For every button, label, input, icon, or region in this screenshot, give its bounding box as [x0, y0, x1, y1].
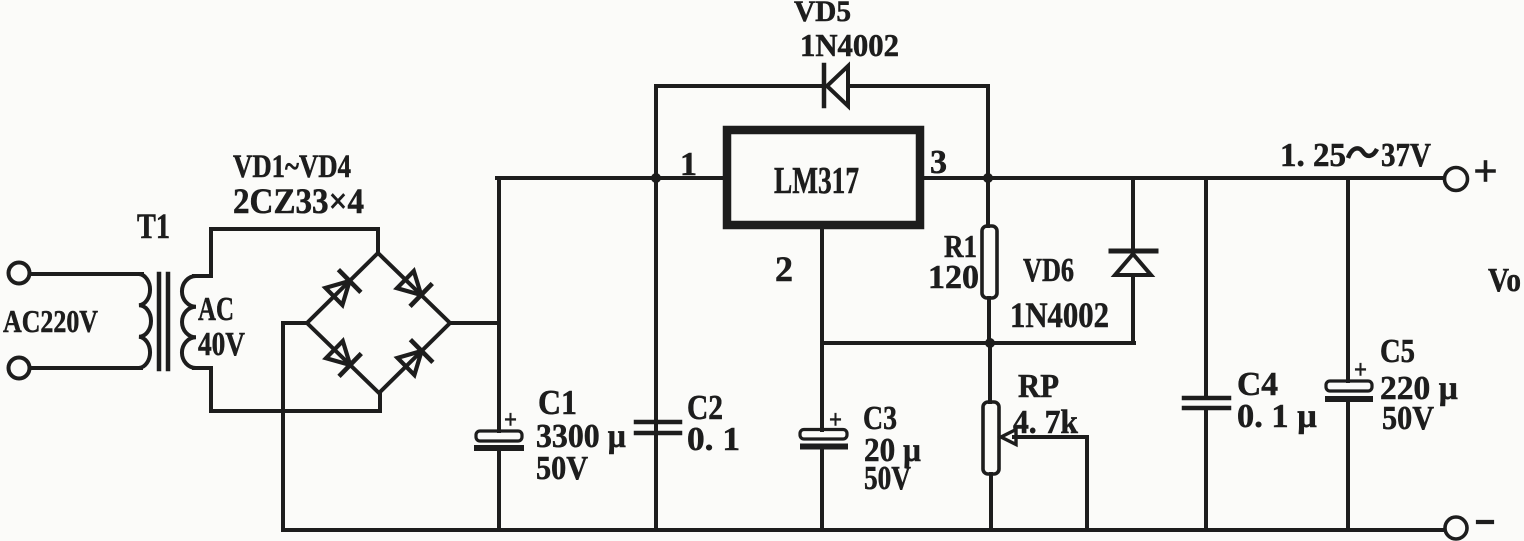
bridge diodes — [326, 270, 433, 377]
capacitor C1 plates — [476, 431, 522, 441]
svg-text:1N4002: 1N4002 — [800, 27, 899, 63]
svg-text:Vo: Vo — [1488, 262, 1521, 299]
wire AC top — [30, 272, 142, 276]
svg-text:2CZ33×4: 2CZ33×4 — [233, 181, 364, 221]
svg-text:AC220V: AC220V — [3, 303, 98, 339]
svg-text:AC: AC — [198, 291, 234, 328]
wire bridge plus output — [450, 321, 497, 325]
terminal output minus — [1445, 517, 1467, 539]
wire input rail — [497, 176, 727, 180]
svg-text:120: 120 — [928, 259, 979, 296]
diode VD3 (bottom-left edge) — [326, 341, 350, 365]
wire VD5 bypass top — [656, 84, 820, 88]
capacitor C5 branch — [1346, 178, 1350, 381]
wire bottom rail — [283, 528, 1444, 532]
svg-text:50V: 50V — [864, 460, 911, 497]
svg-text:VD1~VD4: VD1~VD4 — [233, 149, 351, 185]
wire VD5 right down — [986, 86, 990, 178]
RP wiper arrow — [1001, 430, 1016, 445]
svg-text:VD5: VD5 — [794, 0, 851, 28]
transformer T1 secondary winding — [182, 276, 196, 368]
diode VD5 — [822, 65, 827, 106]
junction dots — [651, 173, 661, 183]
bridge rectifier VD1~VD4 diamond — [307, 253, 450, 393]
wire AC bottom — [30, 366, 141, 370]
wire secondary bottom to bridge — [196, 368, 380, 411]
potentiometer RP — [988, 343, 992, 402]
svg-text:1. 25: 1. 25 — [1280, 137, 1346, 174]
capacitor C4 branch — [1204, 178, 1208, 397]
capacitor C3 plates — [800, 430, 847, 440]
svg-text:1: 1 — [680, 146, 697, 183]
diode VD1 (top-left edge) — [0, 0, 2, 2]
svg-text:37V: 37V — [1381, 137, 1431, 174]
svg-text:+: + — [829, 405, 842, 434]
svg-text:0. 1: 0. 1 — [687, 421, 740, 458]
transformer T1 core — [157, 274, 162, 369]
svg-text:40V: 40V — [198, 326, 245, 363]
diode VD2 (top-right edge) — [397, 271, 421, 295]
svg-text:0. 1 µ: 0. 1 µ — [1237, 398, 1317, 435]
node: C1 branch vertical — [497, 178, 501, 431]
svg-text:RP: RP — [1018, 368, 1059, 405]
capacitor C2 plates — [636, 422, 680, 433]
transformer T1 primary winding — [139, 274, 151, 368]
wire output rail — [920, 176, 1444, 180]
diode VD4 (bottom-right edge) — [398, 351, 422, 375]
wire secondary top to bridge — [196, 229, 378, 276]
minus sign — [1478, 520, 1492, 524]
svg-text:+: + — [1354, 355, 1367, 384]
resistor R1 — [986, 178, 990, 226]
svg-text:50V: 50V — [536, 450, 588, 487]
node 1 vertical / C2 branch — [654, 86, 658, 530]
plus sign — [1477, 162, 1494, 180]
diode VD6 branch — [1131, 178, 1135, 251]
wire bridge minus output — [283, 323, 307, 530]
svg-text:LM317: LM317 — [774, 160, 859, 202]
terminal AC input top — [9, 263, 30, 284]
wire ADJ net — [822, 341, 1134, 345]
svg-text:C5: C5 — [1380, 333, 1415, 370]
svg-text:VD6: VD6 — [1023, 252, 1074, 289]
svg-text:3: 3 — [930, 144, 947, 181]
svg-text:2: 2 — [775, 249, 793, 289]
svg-text:+: + — [504, 405, 517, 434]
svg-text:1N4002: 1N4002 — [1010, 295, 1109, 335]
wire pin2 / C3 branch — [820, 229, 824, 430]
terminal output plus — [1445, 168, 1468, 191]
svg-text:4. 7k: 4. 7k — [1013, 404, 1078, 441]
svg-text:T1: T1 — [137, 206, 170, 246]
diode VD1 (top-left edge) — [326, 281, 350, 305]
svg-text:50V: 50V — [1382, 400, 1434, 437]
svg-text:C1: C1 — [538, 383, 577, 422]
terminal AC input bottom — [9, 358, 30, 379]
op: LM317 box U1 — [727, 130, 920, 225]
